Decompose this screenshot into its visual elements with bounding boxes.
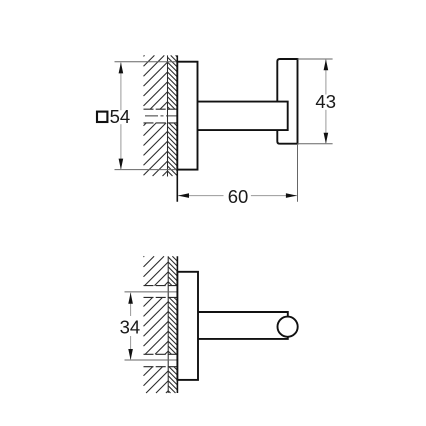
54-dim top extension line <box>115 61 178 63</box>
wall face line (bottom view) <box>176 256 178 393</box>
svg-text:34: 34 <box>120 316 141 337</box>
34-dim top extension / hole 1 centerline <box>125 291 178 293</box>
wall face line / 60-dim left extension (top view) <box>176 55 178 201</box>
screw hole 1 hidden line upper <box>144 285 178 287</box>
43-dim top extension line <box>298 58 333 60</box>
wall hatch (top view) <box>144 55 178 176</box>
svg-text:54: 54 <box>110 106 131 127</box>
54-dim bottom extension line <box>115 169 178 171</box>
screw hole 2 hidden line lower <box>144 366 178 368</box>
43-dim bottom extension line <box>298 143 333 145</box>
dimension 34 line and arrows <box>130 293 132 316</box>
dimension 43 line and arrows <box>325 59 327 94</box>
drill hole hidden line upper (top view) <box>144 108 178 110</box>
arm (bottom view) <box>198 312 288 339</box>
drill hole hidden line lower (top view) <box>144 122 178 124</box>
wall plate / rosette (bottom view) <box>177 272 198 380</box>
screw hole 2 hidden line upper <box>144 353 178 355</box>
svg-text:60: 60 <box>228 186 249 207</box>
wall layer boundary line (top view) <box>167 55 169 176</box>
wall plate / rosette (top view) <box>177 62 197 170</box>
dimension 54 line and arrows <box>120 62 122 110</box>
wall layer boundary line (bottom view) <box>167 256 169 393</box>
dimension 60 line and arrows <box>178 195 224 197</box>
hole centerline (top view) <box>145 115 177 117</box>
svg-text:43: 43 <box>315 91 336 112</box>
square symbol for 54 <box>97 112 107 122</box>
arm (top view) <box>198 102 288 131</box>
screw hole 1 hidden line lower <box>144 296 178 298</box>
wall hatch (bottom view) <box>144 256 178 393</box>
60-dim right extension line <box>297 144 299 202</box>
hook ball tip (bottom view) <box>278 317 298 337</box>
34-dim bottom extension / hole 2 centerline <box>125 359 178 361</box>
hook end bar (top view) <box>277 59 297 144</box>
